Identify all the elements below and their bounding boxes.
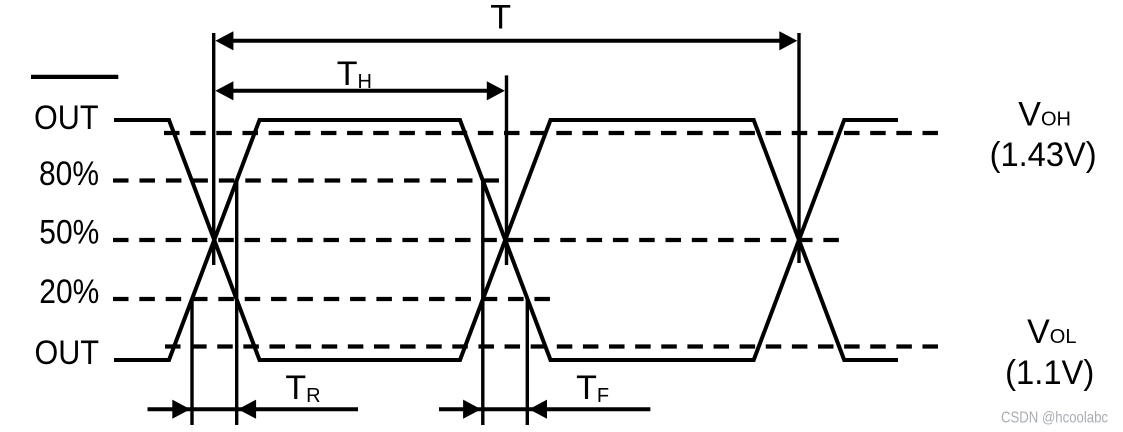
OUT-bar overline <box>31 75 118 79</box>
svg-text:T: T <box>490 0 511 37</box>
svg-text:TF: TF <box>576 369 609 407</box>
svg-text:20%: 20% <box>39 273 99 311</box>
svg-text:OUT: OUT <box>34 99 99 137</box>
marker line crossing 1 <box>212 33 215 265</box>
svg-text:VOH: VOH <box>1018 96 1071 134</box>
svg-text:(1.43V): (1.43V) <box>990 136 1097 174</box>
svg-text:(1.1V): (1.1V) <box>1005 354 1094 392</box>
svg-text:VOL: VOL <box>1027 313 1076 351</box>
tick fall 20% <box>526 299 529 425</box>
svg-text:TH: TH <box>337 55 372 93</box>
20% dashed line <box>113 297 550 301</box>
marker line crossing 2 <box>505 75 508 265</box>
svg-text:50%: 50% <box>39 213 99 251</box>
VOL reference dashed line <box>165 344 938 348</box>
VOH reference dashed line <box>164 131 938 135</box>
dimension arrow TH <box>215 81 504 100</box>
dimension arrow TR <box>148 400 359 419</box>
dimension arrow T <box>215 31 797 50</box>
svg-text:TR: TR <box>285 369 320 407</box>
tick rise 80% <box>235 181 238 426</box>
svg-text:80%: 80% <box>39 155 99 193</box>
tick rise 20% <box>190 299 193 425</box>
svg-text:CSDN @hcoolabc: CSDN @hcoolabc <box>1001 409 1108 426</box>
waveform OUT trace <box>114 120 898 360</box>
waveform OUT-bar trace <box>114 120 898 360</box>
tick fall 80% <box>481 181 484 426</box>
80% dashed line <box>113 178 499 182</box>
dimension arrow TF <box>439 400 650 419</box>
svg-text:OUT: OUT <box>35 334 100 372</box>
50% dashed line <box>113 238 839 242</box>
marker line crossing 3 <box>797 33 800 263</box>
